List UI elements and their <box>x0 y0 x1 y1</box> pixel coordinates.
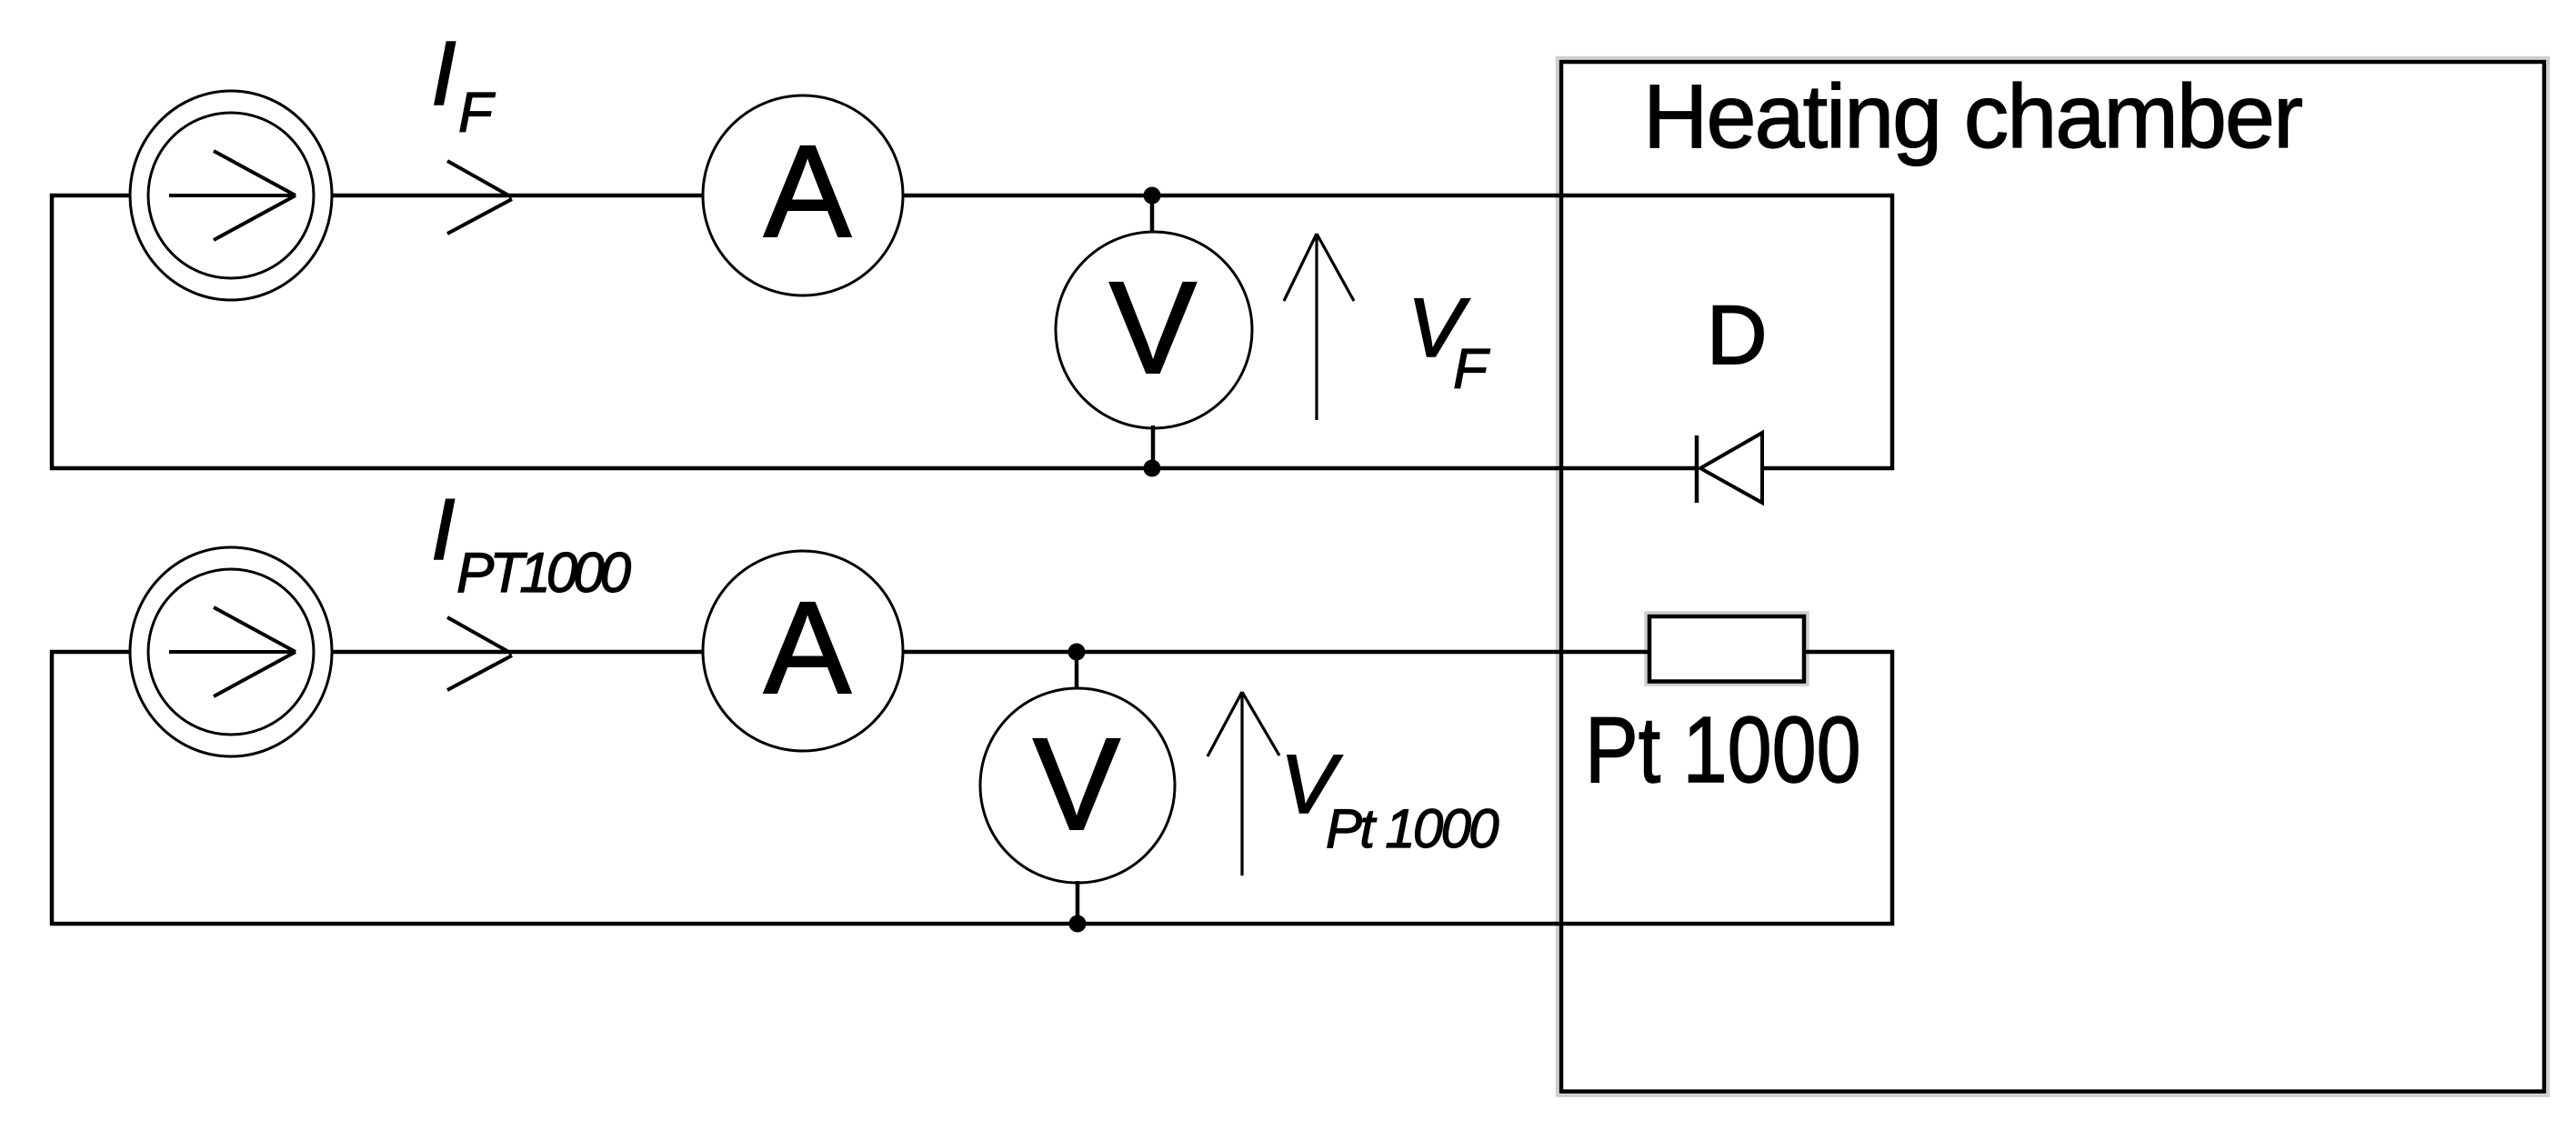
current source I1 (top) outer circle <box>130 91 332 300</box>
svg-text:V: V <box>1109 255 1197 401</box>
current source I2 arrow <box>169 607 296 696</box>
wire: resistor to corner, right vertical, bottom return, left vertical, lead to source <box>52 652 1892 924</box>
wire: bottom circuit top horizontal (source to ammeter to resistor) <box>332 650 1649 655</box>
wire: stub from voltmeter V1 down to bottom wire <box>1151 425 1156 468</box>
svg-text:Heating chamber: Heating chamber <box>1643 65 2302 166</box>
svg-text:A: A <box>764 118 851 265</box>
wire: top circuit left loop (bottom return, left vertical, lead to source) <box>52 195 1697 468</box>
svg-text:I: I <box>431 481 456 578</box>
svg-text:V: V <box>1033 711 1120 857</box>
junction node on top wire <box>1144 187 1161 205</box>
svg-text:F: F <box>1453 338 1490 401</box>
junction node on return wire <box>1069 916 1087 933</box>
svg-text:I: I <box>431 23 456 125</box>
current flow chevron IPT1000 on wire <box>447 617 512 690</box>
wire: top circuit top horizontal, right vertical and lead to diode anode <box>332 195 1892 468</box>
svg-text:A: A <box>764 575 851 721</box>
ammeter A1 circle <box>703 95 903 295</box>
arrow VF (voltage arrow pointing up) <box>1284 234 1354 420</box>
resistor Pt1000 box <box>1649 616 1804 682</box>
svg-text:F: F <box>458 82 496 145</box>
svg-text:D: D <box>1707 289 1767 382</box>
arrow VPt1000 (voltage arrow pointing up) <box>1208 692 1279 876</box>
current source I2 (bottom) outer circle <box>130 547 332 756</box>
wire: stub from wire down to voltmeter V2 <box>1075 652 1079 691</box>
current source I1 arrow <box>169 151 296 240</box>
current source I1 inner circle <box>148 113 314 278</box>
heating chamber box <box>1561 62 2544 1092</box>
junction node on bottom circuit top wire <box>1068 644 1086 661</box>
svg-text:PT1000: PT1000 <box>456 542 631 605</box>
svg-text:Pt 1000: Pt 1000 <box>1585 698 1861 803</box>
wire: stub from top wire down to voltmeter V1 <box>1150 195 1155 236</box>
resistor box shadow (double-draw artifact) <box>1646 613 1808 685</box>
svg-text:Pt 1000: Pt 1000 <box>1326 798 1498 859</box>
heating chamber box shadow (double-draw artifact) <box>1558 58 2549 1096</box>
current source I2 inner circle <box>148 569 314 735</box>
voltmeter V2 circle <box>980 688 1175 883</box>
current flow chevron IF on top wire <box>447 161 512 234</box>
ammeter A2 circle <box>703 551 903 751</box>
voltmeter V1 circle <box>1056 232 1252 428</box>
diode D triangle <box>1700 433 1762 503</box>
junction node on bottom wire <box>1144 460 1161 477</box>
label Pt 1000 <box>1585 698 1861 803</box>
wire: stub from voltmeter V2 down to return wire <box>1076 881 1080 924</box>
diode D cathode bar <box>1695 435 1699 503</box>
